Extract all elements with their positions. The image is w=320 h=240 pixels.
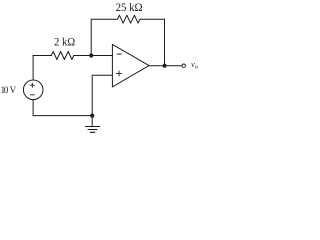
junction node A (inverting input) [89,53,93,57]
wire feedback top right segment [140,18,165,20]
wire op-amp output [149,65,182,67]
wire bottom rail [33,100,92,116]
wire input rail left segment [33,55,51,57]
op-amp minus label [117,53,121,55]
op-amp U1 triangle [112,44,149,87]
junction node output [163,64,167,68]
junction node ground [90,114,94,118]
wire feedback down to output node [164,19,166,65]
resistor R2 25k zigzag [118,15,141,23]
ground stem [91,116,93,127]
ground bar 1 [85,126,100,128]
wire plus input to ground rail [92,75,112,115]
resistor R1 2k zigzag [51,52,74,60]
wire feedback top left segment [91,18,117,20]
VS plus sign [30,83,34,87]
wire feedback up [90,19,92,55]
svg-text:2 kΩ: 2 kΩ [54,37,75,49]
output terminal circle [182,64,185,67]
op-amp plus label [117,71,122,76]
wire R1 to op-amp minus input [74,55,113,57]
label R2 value 25 kOhm [1,2,199,95]
ground bar 2 [88,129,97,131]
VS minus sign [30,94,34,96]
svg-text:25 kΩ: 25 kΩ [116,2,143,14]
wire VS top to input rail [32,56,34,81]
voltage source VS 10V [23,80,43,100]
ground bar 3 [90,131,95,133]
